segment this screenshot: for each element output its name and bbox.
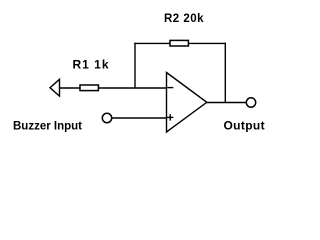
svg-text:R1 1k: R1 1k (73, 58, 110, 72)
wire: input arrow to R1 (60, 87, 81, 89)
wire: feedback top-left to R2 (134, 42, 170, 44)
wire: R2 to right feedback corner (189, 42, 227, 44)
resistor R1 (80, 85, 98, 91)
svg-text:Buzzer Input: Buzzer Input (13, 121, 82, 133)
svg-text:R2 20k: R2 20k (164, 13, 204, 25)
op-amp inverting input marker (-) (167, 87, 173, 89)
wire: op-amp output to output terminal (207, 102, 247, 104)
wire: input terminal to op-amp non-inverting input (112, 117, 167, 119)
wire: feedback vertical down to output node (224, 43, 226, 103)
svg-text:Output: Output (224, 119, 265, 133)
resistor R2 (170, 40, 188, 46)
output terminal circle (246, 98, 255, 107)
op-amp non-inverting input marker (+) (167, 114, 173, 120)
wire: R1 to op-amp inverting input (99, 87, 167, 89)
op-amp U1 (167, 73, 207, 133)
wire: feedback vertical riser at node (134, 43, 136, 88)
input terminal circle (non-inverting input) (102, 113, 111, 122)
input port arrow (Buzzer Input) (50, 79, 60, 96)
